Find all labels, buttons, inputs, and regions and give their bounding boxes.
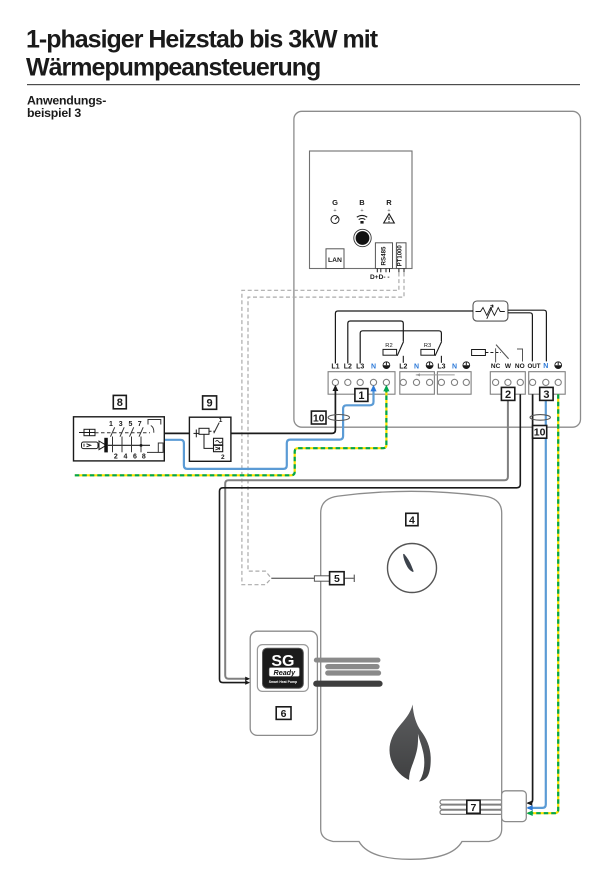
svg-text:1: 1 [109, 421, 113, 428]
LED icon G (power) [331, 216, 339, 224]
svg-text:Ready: Ready [274, 668, 297, 677]
callout 7 [467, 800, 480, 813]
svg-text:+: + [333, 208, 336, 214]
svg-text:Wärmepumpeansteuerung: Wärmepumpeansteuerung [26, 54, 320, 82]
svg-text:9: 9 [207, 398, 213, 410]
control module box [310, 151, 413, 269]
breaker 9 internals [194, 432, 200, 434]
heat exchanger coil [316, 658, 378, 663]
callout 2 [501, 387, 514, 400]
wire load to N [508, 310, 547, 361]
heating element symbol (load) [473, 301, 508, 321]
svg-text:7: 7 [470, 802, 476, 814]
svg-text:R2: R2 [385, 343, 392, 349]
terminal labels block3 [437, 363, 457, 370]
svg-text:L2: L2 [344, 363, 352, 370]
svg-text:1-phasiger Heizstab bis 3kW mi: 1-phasiger Heizstab bis 3kW mit [26, 26, 379, 54]
RCD mechanical link [95, 432, 150, 434]
ferrite 10 left ellipse [328, 415, 349, 421]
terminal circles [332, 379, 561, 385]
thermometer [388, 544, 437, 593]
svg-text:beispiel 3: beispiel 3 [27, 106, 81, 120]
terminal block 5 [529, 372, 566, 395]
callout 6 [276, 707, 291, 720]
svg-text:5: 5 [334, 573, 340, 585]
button [354, 229, 371, 246]
svg-text:N: N [414, 363, 419, 370]
callout 8 [113, 395, 126, 408]
wire L1 to load [335, 311, 473, 364]
svg-text:1: 1 [358, 390, 364, 402]
callout 1 [355, 389, 368, 402]
relay W NC lead [495, 348, 497, 362]
wire blue N [164, 390, 373, 469]
LED icon R (warning triangle) [384, 214, 395, 223]
callout 3 [540, 387, 553, 400]
svg-text:R3: R3 [424, 343, 431, 349]
RCD release coil [82, 442, 99, 449]
svg-text:10: 10 [534, 427, 546, 439]
RCD pole numbers bottom [114, 454, 146, 461]
svg-text:L3: L3 [356, 363, 364, 370]
svg-text:W: W [505, 363, 512, 370]
title rule [27, 84, 580, 85]
callout 4 [406, 513, 418, 525]
RS485 port [375, 243, 392, 269]
callout 10 left [311, 411, 326, 424]
wire L2 to relay R2 [348, 321, 404, 364]
terminal block 1 [328, 372, 395, 395]
callout 5 [330, 572, 345, 585]
svg-text:1: 1 [219, 417, 223, 424]
ferrite 10 right ellipse [530, 415, 550, 421]
PT1000 sensor dashed wire b [248, 273, 404, 579]
RS485 pins [377, 269, 389, 273]
terminal block 2 [400, 372, 435, 395]
svg-text:NO: NO [515, 363, 525, 370]
terminal block 3 [437, 372, 471, 395]
wire PE green-yellow [75, 390, 387, 476]
svg-text:5: 5 [129, 421, 133, 428]
svg-text:2: 2 [505, 389, 511, 401]
RCD breaker 8 [74, 417, 165, 461]
svg-text:LAN: LAN [328, 257, 342, 264]
svg-text:3: 3 [543, 389, 549, 401]
wire grey W to SG [225, 394, 508, 679]
svg-text:N: N [371, 363, 376, 370]
terminal labels block5 [527, 363, 548, 370]
RCD test button [79, 432, 84, 434]
terminal labels block2 [399, 363, 419, 370]
wire black 9 to L1 [231, 389, 336, 433]
svg-text:2: 2 [114, 454, 118, 461]
relay W blade [496, 345, 509, 359]
svg-text:N: N [543, 363, 548, 370]
svg-text:R: R [386, 198, 392, 207]
svg-text:+: + [360, 208, 363, 214]
svg-text:Smart Heat Pump: Smart Heat Pump [269, 680, 297, 684]
relay W NO bracket [517, 349, 523, 362]
PT1000 pins [399, 269, 404, 273]
wire load to OUT [508, 313, 533, 362]
svg-text:N: N [452, 363, 457, 370]
SG ready box [250, 631, 317, 735]
wire black OUT to element [528, 394, 533, 803]
heating element 7 prongs [440, 800, 502, 814]
svg-text:10: 10 [313, 412, 325, 424]
relay W (changeover) coil [472, 350, 486, 356]
RCD pole numbers top [109, 421, 142, 428]
svg-text:3: 3 [119, 421, 123, 428]
svg-text:B: B [359, 198, 365, 207]
svg-text:D+D- -: D+D- - [370, 274, 390, 281]
svg-text:OUT: OUT [527, 363, 540, 370]
wire black NO to SG [220, 394, 521, 682]
wire blue N to element [528, 394, 546, 808]
wire L3 to relay R3 [360, 331, 441, 364]
svg-text:RS485: RS485 [381, 246, 388, 265]
controller enclosure box [294, 111, 581, 427]
RCD trip mechanism [148, 420, 161, 425]
svg-text:PT1000: PT1000 [397, 245, 403, 267]
svg-text:NC: NC [491, 363, 501, 370]
PT1000 sensor dashed wire a [242, 273, 399, 585]
RCD poles [111, 427, 144, 452]
PT1000 port [396, 243, 406, 269]
heating element 7 head [502, 791, 527, 822]
LED icon B (wifi) [357, 215, 367, 219]
callout 9 [203, 396, 217, 409]
svg-text:6: 6 [133, 454, 137, 461]
RCD core [99, 441, 106, 450]
svg-text:L2: L2 [399, 363, 407, 370]
svg-text:7: 7 [138, 421, 142, 428]
callout 10 right [533, 426, 547, 439]
jumper N2-N3 [416, 374, 455, 376]
wire black 8 to 9 [164, 432, 189, 434]
svg-text:G: G [332, 198, 338, 207]
PE symbols [383, 362, 562, 369]
svg-text:4: 4 [123, 454, 127, 461]
svg-text:L1: L1 [331, 363, 339, 370]
wire PE to element [528, 394, 558, 813]
svg-text:2: 2 [221, 454, 225, 461]
breaker 9 [189, 417, 231, 461]
terminal labels block1 [331, 363, 376, 370]
tank [321, 491, 502, 859]
terminal labels block4 [491, 363, 525, 370]
svg-text:L3: L3 [437, 363, 445, 370]
svg-text:4: 4 [409, 514, 415, 526]
svg-text:8: 8 [117, 397, 123, 409]
svg-text:8: 8 [142, 454, 146, 461]
svg-text:6: 6 [281, 708, 287, 720]
LAN port [326, 249, 344, 269]
sensor lead [271, 577, 314, 579]
sensor probe [314, 576, 329, 581]
sensor tip line [344, 577, 355, 579]
terminal block 4 [490, 372, 525, 395]
